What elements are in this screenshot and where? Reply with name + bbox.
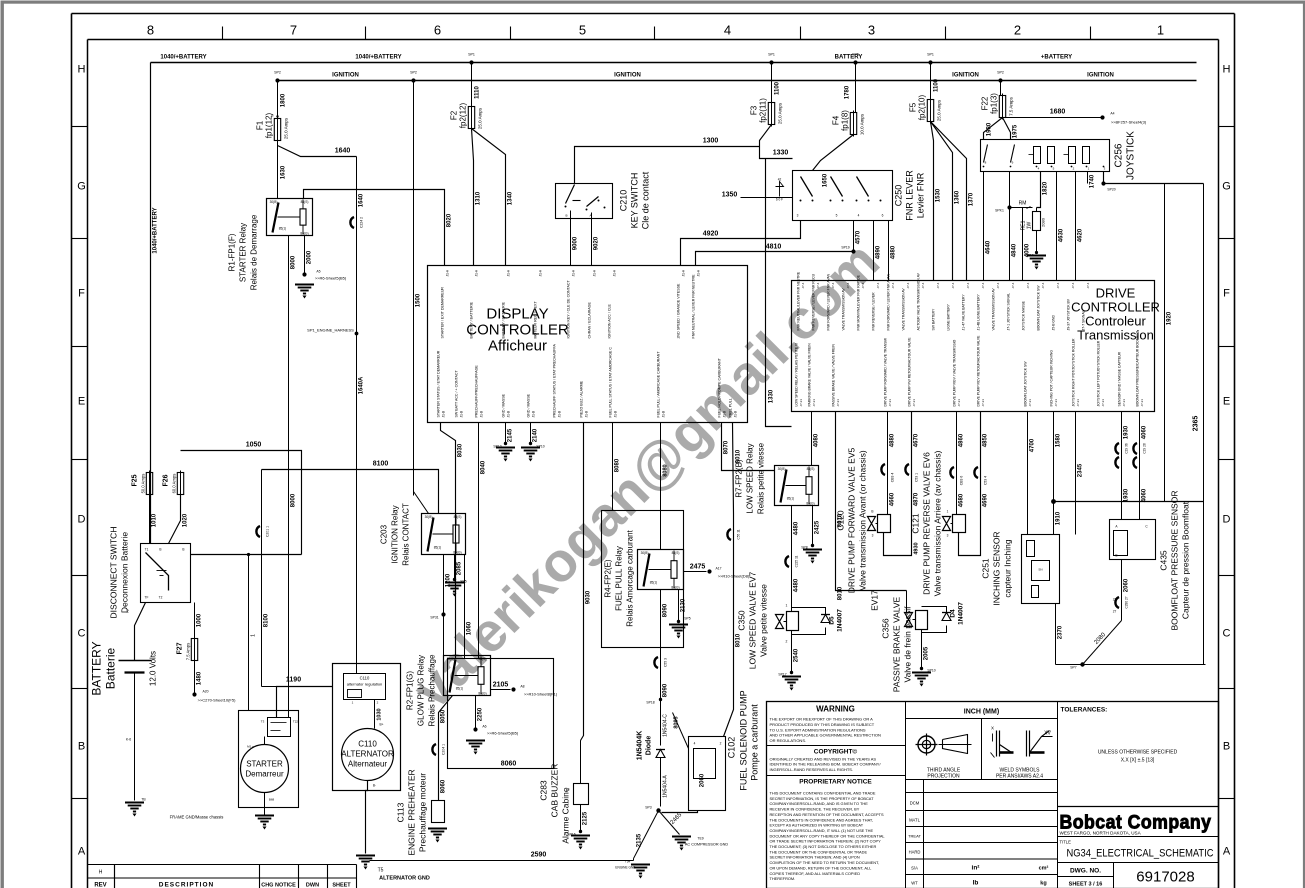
wire 1580 to inching sensor [1053, 412, 1055, 535]
svg-text:J7-4: J7-4 [1011, 282, 1015, 288]
svg-text:J7-31: J7-31 [1028, 399, 1032, 407]
svg-text:C120: C120 [836, 510, 846, 531]
svg-text:60.0 Amps: 60.0 Amps [172, 474, 177, 494]
svg-text:Transmission: Transmission [1077, 328, 1154, 343]
junction SP2 ignition x1000 [998, 78, 1002, 82]
svg-text:COMPANY/INGERSOLL-RAND, AND IS: COMPANY/INGERSOLL-RAND, AND IS GIVEN TO … [770, 801, 869, 806]
svg-text:Relais petite vitesse: Relais petite vitesse [757, 442, 766, 514]
svg-text:2590: 2590 [531, 852, 547, 859]
svg-text:PROPRIETARY NOTICE: PROPRIETARY NOTICE [799, 779, 872, 786]
svg-text:Valve de frein passif: Valve de frein passif [903, 606, 913, 683]
wire 1360 [931, 122, 953, 281]
svg-text:27: 27 [1113, 610, 1117, 614]
svg-text:DRIVE PUMP FW RETOUR/ACTOUR VA: DRIVE PUMP FW RETOUR/ACTOUR VALVE [908, 337, 912, 407]
svg-text:25.0 Amps: 25.0 Amps [284, 117, 289, 139]
svg-text:1310: 1310 [476, 191, 482, 205]
svg-text:J7-4: J7-4 [996, 282, 1000, 288]
svg-text:A4: A4 [1110, 112, 1114, 116]
svg-text:fp2(12): fp2(12) [459, 102, 468, 128]
wire 9020 [591, 219, 593, 266]
svg-text:DCM: DCM [910, 801, 920, 806]
wire 4880 from FNR [888, 221, 890, 281]
svg-text:2: 2 [720, 742, 722, 746]
svg-text:2000: 2000 [307, 250, 313, 264]
svg-text:5: 5 [579, 23, 586, 38]
wire 2085 from C203 to ground [454, 555, 456, 580]
svg-text:IGNITION ACC / CLE: IGNITION ACC / CLE [608, 304, 612, 339]
junction SP31 [441, 612, 445, 616]
svg-text:Pompe a carburant: Pompe a carburant [750, 704, 760, 781]
svg-text:B: B [159, 548, 161, 552]
svg-text:1190: 1190 [286, 677, 301, 684]
svg-text:1975: 1975 [1013, 124, 1019, 138]
wire 4880 to valve C120 [887, 412, 889, 515]
svg-text:AC COMPRESSOR GND: AC COMPRESSOR GND [685, 843, 729, 847]
svg-text:Valve transmission Avant (or: Valve transmission Avant (or chassis) [858, 450, 868, 591]
svg-text:8070: 8070 [724, 440, 730, 454]
svg-text:1330: 1330 [769, 389, 775, 403]
wire 4700 to inching sensor [1027, 412, 1029, 535]
svg-text:30(B): 30(B) [425, 515, 433, 519]
joystick potentiometer 1 [1034, 147, 1041, 164]
svg-text:THE DOCUMENT; (3) NOT DISCLOSE: THE DOCUMENT; (3) NOT DISCLOSE TO OTHERS… [770, 844, 877, 849]
svg-text:C280 27: C280 27 [1125, 596, 1129, 608]
svg-text:DRIVE PUMP FORWARD / VALVE TRA: DRIVE PUMP FORWARD / VALVE TRANSMI [884, 338, 888, 407]
FNR switch contacts [801, 177, 813, 197]
svg-text:J7-4: J7-4 [906, 282, 910, 288]
junction battery x930 [928, 60, 932, 64]
svg-text:FUEL PULL STATUS / ETAT AMORCA: FUEL PULL STATUS / ETAT AMORCAGE C [609, 347, 613, 418]
ground SP8 [803, 550, 822, 559]
wire 4890 from FNR [873, 221, 875, 281]
svg-text:A: A [589, 214, 591, 218]
svg-text:WARNING: WARNING [816, 705, 855, 714]
svg-text:TREAT: TREAT [908, 834, 921, 839]
diode D4 1N4007 [922, 607, 947, 613]
svg-text:B: B [1115, 554, 1117, 558]
fuse F22 fp1(3) 7.5 Amps [999, 96, 1005, 118]
svg-text:TE9: TE9 [697, 837, 703, 841]
svg-text:4850: 4850 [983, 433, 989, 447]
svg-text:3: 3 [797, 214, 799, 218]
svg-text:J9-37 JOYSTICK BV: J9-37 JOYSTICK BV [1067, 298, 1071, 330]
diode 1N5404K [656, 749, 665, 751]
svg-text:3: 3 [868, 23, 875, 38]
ground below R4 [669, 625, 688, 634]
wire 2135 to engine ground [634, 811, 659, 859]
relay R7-FP2(B) LOW SPEED Relay [775, 466, 819, 506]
svg-text:STARTER / EXIT DEMARREUR: STARTER / EXIT DEMARREUR [441, 287, 445, 339]
svg-text:INGERSOLL-RAND RESERVES ALL RI: INGERSOLL-RAND RESERVES ALL RIGHTS. [770, 767, 854, 772]
svg-text:PREL PULL: PREL PULL [729, 398, 733, 417]
wire 2475 node A17 [684, 571, 707, 573]
svg-text:CHG NOTICE: CHG NOTICE [261, 883, 296, 888]
svg-text:J7-31: J7-31 [912, 399, 916, 407]
svg-text:Controleur: Controleur [1085, 314, 1146, 329]
svg-text:1340: 1340 [508, 191, 514, 205]
svg-text:4880: 4880 [891, 245, 897, 259]
svg-text:85(1): 85(1) [650, 581, 657, 585]
svg-text:J7-4: J7-4 [1071, 282, 1075, 288]
svg-text:J7-4: J7-4 [816, 282, 820, 288]
svg-text:J7-4: J7-4 [981, 282, 985, 288]
svg-text:85(1): 85(1) [787, 497, 794, 501]
svg-text:A17: A17 [715, 567, 721, 571]
svg-text:BOOMFLOAT JOYSTICK SW: BOOMFLOAT JOYSTICK SW [1037, 285, 1041, 331]
svg-text:X: X [991, 726, 994, 731]
svg-text:1650: 1650 [823, 173, 829, 187]
wire 1975 F22 to joystick [1003, 118, 1011, 140]
svg-text:1040/+BATTERY: 1040/+BATTERY [355, 55, 401, 61]
svg-text:1N5404-C: 1N5404-C [663, 714, 669, 737]
svg-text:fp2(10): fp2(10) [918, 94, 927, 120]
svg-text:8060: 8060 [441, 779, 447, 793]
svg-text:1820: 1820 [1043, 181, 1049, 195]
svg-text:SP5: SP5 [684, 617, 691, 621]
junction SP2 ignition x413 [411, 78, 415, 82]
wire 1910 horizontal [1054, 501, 1204, 503]
wire 8010 display to fuel pump [724, 423, 734, 737]
wire 4480 R7 to valve C350 [791, 506, 793, 608]
svg-text:SP18: SP18 [646, 701, 654, 705]
relay R1-FP1(F) STARTER Relay [267, 199, 313, 236]
svg-text:C251: C251 [981, 558, 991, 579]
svg-text:C224 2: C224 2 [360, 217, 364, 228]
wire 2005 to ground [921, 630, 923, 669]
wire 1100 F5 [930, 63, 932, 100]
wire 1500 ignition to C203 [413, 81, 415, 496]
svg-text:SP20: SP20 [1107, 188, 1115, 192]
svg-text:85(1): 85(1) [279, 227, 286, 231]
resistor RE1 1W [1033, 212, 1041, 231]
svg-text:WT: WT [911, 881, 918, 886]
svg-text:DISPLAY: DISPLAY [486, 306, 548, 323]
wire 1040 left drop to battery [150, 63, 152, 544]
svg-text:J7-4: J7-4 [891, 282, 895, 288]
svg-text:A5: A5 [316, 270, 320, 274]
svg-text:4060: 4060 [1142, 488, 1148, 502]
wire 1020 [169, 495, 181, 544]
svg-text:1500: 1500 [416, 293, 422, 307]
svg-text:THE DOCUMENTS IN CONFIDENCE AN: THE DOCUMENTS IN CONFIDENCE AND AGREES T… [770, 817, 873, 822]
svg-text:8100: 8100 [264, 613, 270, 627]
svg-text:7: 7 [290, 23, 297, 38]
svg-text:86(G): 86(G) [671, 586, 679, 590]
svg-text:1350: 1350 [722, 192, 738, 199]
wire 1060 [464, 555, 466, 659]
svg-text:8030: 8030 [458, 443, 464, 457]
svg-text:fp2(11): fp2(11) [759, 98, 768, 123]
svg-text:4: 4 [724, 23, 731, 38]
svg-text:lb: lb [973, 880, 979, 887]
svg-text:10.0 Amps: 10.0 Amps [860, 113, 865, 135]
wire 1N5404-A to SP3 [660, 758, 662, 807]
alternator circle C110 [342, 729, 394, 781]
svg-text:F5: F5 [909, 102, 918, 112]
svg-text:Valve petite vitesse: Valve petite vitesse [759, 584, 769, 657]
svg-text:1920: 1920 [1167, 311, 1173, 325]
svg-text:4630: 4630 [1059, 228, 1065, 242]
ground below C113 [428, 829, 447, 838]
ground SP16 below buzzer [571, 836, 590, 845]
ground below R1 [295, 285, 314, 294]
svg-text:4640: 4640 [986, 240, 992, 254]
valve C121 DRIVE PUMP REVERSE VALVE EV6 [943, 517, 951, 531]
svg-text:8090: 8090 [663, 603, 669, 617]
svg-text:8080: 8080 [663, 464, 669, 476]
svg-text:BOOMFLOAT JOYSTICK SW: BOOMFLOAT JOYSTICK SW [1024, 361, 1028, 407]
wire 1680 [1003, 117, 1103, 119]
wire 1370 [931, 122, 967, 281]
svg-text:Demarreur: Demarreur [245, 770, 284, 779]
wire 2125 to ground [580, 805, 582, 832]
svg-text:Prechauffage moteur: Prechauffage moteur [418, 773, 428, 852]
svg-text:THE DOCUMENT OR THE CONFIDENTI: THE DOCUMENT OR THE CONFIDENTIAL OR TRAD… [770, 849, 868, 854]
svg-text:Batterie: Batterie [104, 647, 118, 689]
wire 1330 from F3 [760, 125, 793, 159]
svg-text:H: H [78, 64, 86, 76]
svg-text:F2: F2 [450, 110, 459, 120]
svg-text:85(1): 85(1) [434, 546, 441, 550]
node A5 >>R6-Sheet5 [302, 272, 306, 276]
svg-text:F25: F25 [132, 474, 139, 486]
svg-text:86(G): 86(G) [453, 551, 461, 555]
svg-text:EV17: EV17 [870, 590, 880, 611]
svg-text:J7-31: J7-31 [812, 399, 816, 407]
svg-text:XV: XV [1044, 731, 1051, 737]
svg-text:6 0 F: 6 0 F [776, 198, 783, 202]
svg-text:HARD: HARD [909, 850, 921, 855]
svg-text:4840: 4840 [1012, 243, 1018, 257]
svg-text:J1-A: J1-A [593, 269, 597, 276]
ground below wire 2140 [521, 448, 540, 457]
svg-text:F: F [78, 288, 85, 300]
svg-text:G: G [1222, 181, 1231, 193]
svg-text:RECEIVER IN CONFIDENCE. THE RE: RECEIVER IN CONFIDENCE. THE RECEIVER, BY [770, 807, 860, 812]
svg-text:DRIVE PUMP FORWARD VALVE EV5: DRIVE PUMP FORWARD VALVE EV5 [847, 447, 857, 593]
svg-text:86(S): 86(S) [672, 551, 680, 555]
svg-text:FUEL SOLENOID PUMP: FUEL SOLENOID PUMP [739, 690, 749, 790]
wire 8095 into pump [673, 713, 689, 749]
svg-text:FNR MOMVIN/LEVER FNR RAPIDE: FNR MOMVIN/LEVER FNR RAPIDE [857, 274, 861, 330]
svg-text:DRIVE: DRIVE [1096, 286, 1136, 301]
svg-text:J7-31: J7-31 [836, 399, 840, 407]
wire 1800 [277, 81, 279, 119]
svg-text:5: 5 [836, 214, 838, 218]
svg-text:J7-31: J7-31 [1054, 399, 1058, 407]
svg-text:kg: kg [1040, 881, 1046, 887]
svg-text:7.5 Amps: 7.5 Amps [1009, 96, 1014, 116]
svg-text:2ND SPEED / GRANDE VITESSE: 2ND SPEED / GRANDE VITESSE [677, 283, 681, 339]
svg-text:4810: 4810 [766, 244, 782, 251]
svg-text:IGNITION: IGNITION [614, 73, 641, 79]
joystick potentiometer 2 [1069, 147, 1076, 164]
wire 8100 horizontal [262, 470, 439, 514]
starter box [239, 711, 299, 808]
ignition bus wire [278, 80, 1197, 82]
svg-text:fp1(8): fp1(8) [841, 110, 850, 131]
node SP1_ENGINE_HARNESS [355, 332, 359, 336]
svg-text:J7-4: J7-4 [861, 282, 865, 288]
svg-text:B: B [565, 214, 567, 218]
svg-text:1N5404-A: 1N5404-A [663, 775, 669, 798]
svg-text:1: 1 [1157, 23, 1164, 38]
svg-text:1000: 1000 [197, 613, 203, 627]
junction SP20 [1101, 181, 1105, 185]
svg-text:SP5: SP5 [852, 53, 859, 57]
svg-text:FUEL PULL / AMORCAGE CARBURANT: FUEL PULL / AMORCAGE CARBURANT [657, 351, 661, 418]
svg-text:8010: 8010 [736, 633, 742, 647]
svg-text:1640A: 1640A [359, 376, 365, 394]
svg-text:>>R6-Sheet5(B5): >>R6-Sheet5(B5) [487, 731, 519, 736]
svg-text:SW BATTERY: SW BATTERY [932, 308, 936, 330]
svg-text:C53 1: C53 1 [915, 473, 919, 482]
svg-text:4680: 4680 [959, 493, 965, 507]
svg-text:86(G): 86(G) [806, 502, 814, 506]
svg-text:C: C [78, 628, 86, 640]
junction SP5 battery x855 [853, 60, 857, 64]
ground TB frame [125, 803, 144, 812]
svg-text:FNR REVERSE / LEVER FNR RECU: FNR REVERSE / LEVER FNR RECU [812, 273, 816, 330]
wire 2060 from pump to SP3 [662, 811, 698, 813]
svg-text:8040: 8040 [481, 460, 487, 474]
svg-text:BATTERY / BATTERIE: BATTERY / BATTERIE [502, 301, 506, 338]
ground SP16 below RE1 [1027, 256, 1046, 265]
svg-text:C203: C203 [380, 524, 389, 544]
svg-text:J7-4: J7-4 [876, 282, 880, 288]
svg-text:LOW SPEED RELAY / RELAIS PETIT: LOW SPEED RELAY / RELAIS PETITE VI [795, 343, 799, 407]
svg-text:J7-4: J7-4 [1026, 282, 1030, 288]
ground below starter [255, 816, 274, 825]
svg-text:2060: 2060 [1124, 578, 1130, 592]
wire 1350 stub [741, 197, 793, 199]
wire 8100 left drop [261, 470, 263, 687]
svg-text:VALVE TRANSMISSION AV: VALVE TRANSMISSION AV [992, 288, 996, 331]
svg-text:8060: 8060 [501, 761, 517, 768]
svg-text:4060: 4060 [1142, 425, 1148, 439]
svg-text:in²: in² [972, 865, 981, 872]
connector C53-4 on wire 4850 [974, 467, 978, 478]
svg-text:OR TRADE SECRET INFORMATION TH: OR TRADE SECRET INFORMATION THEREIN; (2)… [770, 839, 882, 844]
svg-text:1300: 1300 [703, 138, 719, 145]
joystick C256 box [981, 140, 1110, 172]
svg-text:SP1: SP1 [468, 53, 475, 57]
wire 2370 [1055, 604, 1057, 665]
svg-text:J1-A: J1-A [682, 269, 686, 276]
svg-text:DESCRIPTION: DESCRIPTION [159, 882, 214, 888]
wire 2250 to ground [475, 696, 477, 730]
svg-text:Relais Amorcage carburant: Relais Amorcage carburant [626, 529, 635, 626]
valve C120 DRIVE PUMP FORWARD VALVE EV5 [868, 517, 876, 531]
svg-text:cm²: cm² [1039, 865, 1049, 872]
wire 2105 node A8 [491, 689, 511, 691]
svg-text:BATTERY / BATTERIE: BATTERY / BATTERIE [470, 301, 474, 338]
svg-text:1040/+BATTERY: 1040/+BATTERY [160, 55, 206, 61]
svg-text:R7-FP2(B): R7-FP2(B) [735, 459, 744, 498]
svg-text:D: D [78, 514, 86, 526]
svg-text:8100: 8100 [373, 461, 389, 468]
svg-text:1740: 1740 [1090, 174, 1096, 188]
wire 1100 [771, 63, 773, 103]
svg-text:4: 4 [694, 742, 696, 746]
svg-text:IGNITION KEY / CLE DE CONTACT: IGNITION KEY / CLE DE CONTACT [567, 280, 571, 339]
wire 1190 [277, 687, 333, 718]
drive controller box [792, 281, 1155, 412]
svg-text:STARTER Relay: STARTER Relay [239, 223, 248, 282]
svg-text:TOLERANCES:: TOLERANCES: [1061, 707, 1108, 714]
svg-text:30(B): 30(B) [778, 467, 786, 471]
svg-text:LIGNE BATTERY: LIGNE BATTERY [947, 303, 951, 330]
svg-text:SP1: SP1 [927, 53, 934, 57]
svg-text:PASSIVE BRAKE VALVE: PASSIVE BRAKE VALVE [892, 596, 902, 692]
svg-text:JOYSTICK LEFT POT/JOYSTICK ROL: JOYSTICK LEFT POT/JOYSTICK ROLLER [1097, 340, 1101, 406]
svg-text:1800: 1800 [281, 93, 287, 107]
svg-text:GND / MASSE: GND / MASSE [502, 393, 506, 417]
bobcat company logo [1058, 806, 1219, 808]
fuse F1 fp1(12) 25.0 Amps [274, 119, 280, 141]
junction SP19 [851, 249, 855, 253]
fuse F3 fp2(11) 25.0 Amps [768, 103, 774, 125]
svg-text:KEY SWITCH: KEY SWITCH [630, 173, 640, 229]
wire 4850 to valve C121 return [959, 412, 981, 556]
svg-text:R2-FP1(G): R2-FP1(G) [406, 671, 415, 710]
wire 8050 R2 to C113 [439, 696, 453, 801]
cab buzzer C283 [574, 784, 589, 805]
svg-text:C110: C110 [358, 740, 377, 749]
svg-text:J1-47 VALVE BATTERY: J1-47 VALVE BATTERY [962, 294, 966, 331]
svg-text:1: 1 [786, 604, 788, 608]
svg-text:BOOMFLOAT PRESSURE/CAPTEUR BOO: BOOMFLOAT PRESSURE/CAPTEUR BOOMFLO [1136, 331, 1140, 407]
boomfloat pressure sensor C435 box [1110, 520, 1156, 560]
svg-text:PRODUCT PRODUCED BY THIS DRAWI: PRODUCT PRODUCED BY THIS DRAWING IS SUBJ… [770, 722, 875, 727]
svg-text:J7-31: J7-31 [957, 399, 961, 407]
svg-text:8010: 8010 [838, 586, 844, 600]
svg-text:25.0 Amps: 25.0 Amps [778, 102, 783, 124]
wire 4840 joystick to drive controller [1009, 172, 1011, 281]
svg-text:SP2: SP2 [410, 71, 417, 75]
svg-text:alternator regulation: alternator regulation [347, 682, 383, 687]
svg-text:IGNITION: IGNITION [332, 73, 359, 79]
svg-text:86(S): 86(S) [454, 515, 462, 519]
svg-text:STARTER: STARTER [246, 760, 283, 769]
svg-text:>>C270-Sheet10(F5): >>C270-Sheet10(F5) [198, 698, 236, 703]
svg-text:1100: 1100 [934, 78, 940, 92]
svg-text:FNR FORWARD / LEVER FNR AVAN: FNR FORWARD / LEVER FNR AVAN [827, 273, 831, 330]
valve C356 PASSIVE BRAKE VALVE EV17 [905, 613, 913, 627]
svg-text:8: 8 [147, 23, 154, 38]
svg-text:SP31: SP31 [430, 616, 438, 620]
ground SP10 below C356 [912, 673, 931, 682]
wire 8090 from R4 [660, 590, 662, 746]
svg-text:Deconnexion Batterie: Deconnexion Batterie [120, 532, 130, 614]
svg-text:27: 27 [1113, 598, 1117, 602]
wire 1530 [931, 122, 934, 281]
svg-text:2005: 2005 [924, 646, 930, 660]
wire 4640 joystick pin8 to drive controller [983, 172, 985, 281]
svg-text:J1-B: J1-B [662, 411, 666, 418]
svg-text:ENGINE GND: ENGINE GND [615, 866, 636, 870]
svg-text:CONTROLLER: CONTROLLER [466, 322, 569, 339]
svg-text:4670: 4670 [914, 433, 920, 447]
svg-text:SP3: SP3 [645, 806, 652, 810]
svg-text:C356: C356 [881, 618, 891, 639]
svg-text:1: 1 [947, 510, 949, 514]
svg-text:THIS DOCUMENT CONTAINS CONFIDE: THIS DOCUMENT CONTAINS CONFIDENTIAL AND … [770, 791, 876, 796]
svg-text:25.0 Amps: 25.0 Amps [478, 107, 483, 129]
svg-text:H: H [99, 870, 103, 876]
svg-text:Capteur de pression Boomfloat: Capteur de pression Boomfloat [1181, 501, 1191, 619]
wire 4080 [811, 412, 813, 466]
